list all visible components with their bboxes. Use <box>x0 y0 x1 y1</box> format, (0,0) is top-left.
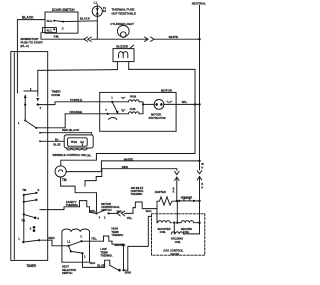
svg-text:SWITCH: SWITCH <box>101 208 111 212</box>
svg-text:2: 2 <box>104 215 106 219</box>
svg-text:THERMO.: THERMO. <box>111 233 123 237</box>
svg-text:PURPLE: PURPLE <box>70 98 82 102</box>
svg-text:THERMO.: THERMO. <box>66 203 79 207</box>
wire blue from heat selector <box>83 253 105 267</box>
wire brown down <box>123 244 125 270</box>
svg-text:BLK.: BLK. <box>146 209 153 213</box>
svg-text:BRN: BRN <box>125 270 131 274</box>
wire safety thermo feed <box>40 207 80 210</box>
neutral lower connector arrow <box>197 177 201 180</box>
svg-text:P.M.: P.M. <box>54 35 60 39</box>
svg-text:WHITE: WHITE <box>124 157 133 161</box>
wire orange return: motor node down to timer motor <box>61 104 195 165</box>
wire door switch C to thermal fuse (BLK.) <box>63 20 97 23</box>
svg-text:TH: TH <box>21 219 25 223</box>
svg-text:DOOR SWITCH: DOOR SWITCH <box>52 8 75 12</box>
motor box M1 <box>100 92 176 131</box>
svg-text:(PL-C): (PL-C) <box>21 44 29 48</box>
node: light/neutral junction <box>198 38 200 40</box>
svg-text:"B": "B" <box>121 108 126 112</box>
svg-text:RED: RED <box>48 236 55 240</box>
timer motor staircase to centrifugal switch <box>61 177 97 211</box>
svg-text:COIL: COIL <box>175 240 182 244</box>
svg-text:N.C.: N.C. <box>47 28 53 32</box>
door switch N.C. terminal <box>42 28 56 33</box>
svg-text:L: L <box>18 236 20 240</box>
svg-text:4: 4 <box>99 215 101 219</box>
svg-text:WRINKLE CONTROL SW.: WRINKLE CONTROL SW. <box>53 153 87 157</box>
door switch S1 box <box>45 12 78 33</box>
connector chevrons yellow <box>117 211 120 216</box>
connector arrow up red <box>175 177 179 180</box>
timer L contact <box>23 214 25 242</box>
wire to orange <box>36 114 65 128</box>
thermal fuse F1-F2 <box>96 4 98 39</box>
svg-text:BUZZER: BUZZER <box>116 44 129 48</box>
svg-text:BLUE: BLUE <box>53 142 60 146</box>
svg-text:N.O.: N.O. <box>47 19 53 23</box>
wire buzzer to motor output node <box>129 69 195 104</box>
wire N.C. to cylinder light <box>41 33 84 40</box>
push-to-start left contact with up arrow <box>24 95 26 104</box>
svg-text:C: C <box>62 26 65 30</box>
node coils/sensor riser <box>176 222 178 224</box>
svg-text:BLK: BLK <box>90 261 96 265</box>
node sensor/neutral <box>198 200 200 202</box>
svg-text:NEUTRAL: NEUTRAL <box>192 1 206 5</box>
timer contact to orange riser <box>24 105 26 121</box>
wire red-black: timer to wrinkle control <box>39 132 41 134</box>
wire motor output WH <box>164 103 200 105</box>
timer box <box>11 52 48 261</box>
svg-text:NOT RESETABLE: NOT RESETABLE <box>112 12 137 16</box>
svg-text:"A": "A" <box>121 96 126 100</box>
node winding junction <box>142 103 144 105</box>
svg-text:H: H <box>201 166 203 169</box>
svg-text:F2: F2 <box>103 9 107 13</box>
heat selector L <box>69 246 71 252</box>
motor switch contact 1 <box>111 101 113 103</box>
svg-text:BLACK: BLACK <box>80 17 91 21</box>
svg-text:K: K <box>201 186 203 189</box>
svg-text:KNOB: KNOB <box>51 93 61 97</box>
svg-text:SENSOR: SENSOR <box>181 196 193 200</box>
svg-text:BLUE: BLUE <box>97 264 105 268</box>
wire orange <box>65 113 107 115</box>
timer spare terminals <box>33 226 36 229</box>
svg-text:YEL.: YEL. <box>91 236 97 240</box>
wire white: timer motor to neutral <box>66 161 199 172</box>
svg-text:WH.: WH. <box>182 100 188 104</box>
timer inner edge wire <box>13 53 15 259</box>
push-to-start switch bar <box>24 90 38 92</box>
svg-text:VALVE: VALVE <box>170 252 179 256</box>
svg-text:7: 7 <box>105 108 107 112</box>
node secondary/neutral <box>198 222 200 224</box>
wire aux to junction <box>139 104 143 113</box>
wire white to neutral <box>154 38 200 40</box>
svg-text:OR.: OR. <box>86 153 91 157</box>
svg-text:"L1": "L1" <box>166 100 172 104</box>
svg-text:L: L <box>18 121 20 125</box>
svg-text:SWITCH: SWITCH <box>62 271 72 275</box>
node motor/neutral <box>198 103 200 105</box>
svg-text:B2: B2 <box>73 140 77 144</box>
booster coil <box>156 209 158 223</box>
node thermo outputs join <box>118 269 121 272</box>
svg-text:WHITE: WHITE <box>169 35 178 39</box>
svg-text:RED-BLACK: RED-BLACK <box>62 128 80 132</box>
wire red: staircase to burner <box>85 169 177 186</box>
svg-text:BLACK: BLACK <box>22 15 34 19</box>
push-to-start right contact with down arrow <box>37 70 39 96</box>
heat selector switch box <box>62 229 90 262</box>
wire red to heat selector <box>39 240 69 246</box>
svg-text:THERMO.: THERMO. <box>131 192 143 196</box>
wire purple: timer to motor <box>38 102 112 105</box>
svg-text:PROTECTOR: PROTECTOR <box>149 116 166 120</box>
wire to light <box>91 38 148 40</box>
svg-text:RUN: RUN <box>130 94 136 98</box>
svg-text:COIL: COIL <box>160 230 167 234</box>
svg-text:S: S <box>37 188 39 192</box>
svg-text:1: 1 <box>84 255 86 259</box>
timer motor TM <box>55 166 66 177</box>
gas control valve dashed box <box>152 214 205 255</box>
connector chevron left pair <box>84 37 87 41</box>
wrinkle control switch box <box>64 135 93 148</box>
wire run to junction <box>139 102 143 105</box>
svg-text:ORANGE: ORANGE <box>69 110 82 114</box>
svg-text:THERMO.: THERMO. <box>100 254 112 258</box>
wire timer to buzzer <box>38 69 118 72</box>
secondary coil <box>177 222 181 224</box>
wire bl-blue stub <box>39 141 41 143</box>
motor actuator arc <box>109 118 117 120</box>
svg-text:4: 4 <box>37 217 39 221</box>
door switch common C <box>62 21 64 23</box>
svg-text:2: 2 <box>30 226 32 230</box>
holding coil <box>173 223 175 234</box>
svg-text:TIMER: TIMER <box>26 264 36 268</box>
wire to air inlet thermo <box>125 208 136 214</box>
node igniter/sensor <box>176 200 178 202</box>
node booster/holding <box>173 222 175 224</box>
motor terminal 7 <box>107 113 109 115</box>
wire thermo output to gas valve <box>128 216 152 270</box>
wire black feed from L1 to door switch <box>17 20 45 93</box>
svg-text:TM: TM <box>22 188 27 192</box>
svg-text:TM: TM <box>62 178 67 182</box>
svg-text:C: C <box>80 235 83 239</box>
svg-text:1: 1 <box>111 95 113 99</box>
motor protector <box>154 100 164 110</box>
neutral lower connector chevron <box>197 171 201 174</box>
svg-text:L1: L1 <box>67 240 71 244</box>
svg-text:L1: L1 <box>94 1 98 5</box>
timer TH contact <box>23 202 25 215</box>
connector chevron down red <box>175 171 179 174</box>
svg-text:RED: RED <box>122 165 129 169</box>
svg-text:BL-: BL- <box>55 137 59 141</box>
buzzer legs <box>116 62 118 70</box>
connector pair on white wire <box>145 37 148 41</box>
svg-text:K: K <box>173 191 175 194</box>
svg-text:MOTOR: MOTOR <box>161 88 173 92</box>
node white/neutral <box>198 160 200 162</box>
svg-text:IGNITER: IGNITER <box>155 190 166 194</box>
svg-text:5: 5 <box>40 106 42 110</box>
svg-text:COIL: COIL <box>183 230 190 234</box>
node buzzer/motor junction <box>194 103 196 105</box>
svg-text:YEL.: YEL. <box>127 216 133 220</box>
wire yel to high temp thermo <box>82 240 104 242</box>
svg-text:AUX.: AUX. <box>130 107 137 111</box>
